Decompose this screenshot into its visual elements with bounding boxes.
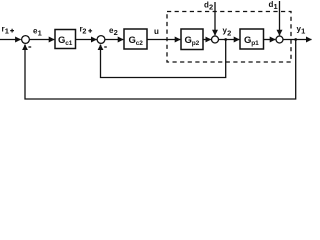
wire inner feedback: y2 down [101, 40, 226, 78]
minus sign at S2 [104, 46, 107, 48]
svg-text:2: 2 [209, 3, 213, 12]
wire Gp1 to S4 [264, 39, 276, 41]
svg-text:1: 1 [5, 27, 9, 36]
wire outer feedback: y1 down [25, 40, 296, 100]
svg-text:p2: p2 [192, 40, 200, 47]
wire r1 input [0, 39, 21, 41]
wire d1 input [279, 1, 281, 35]
summing junction S4 [276, 36, 283, 43]
block Gc2 [124, 29, 147, 49]
svg-text:1: 1 [274, 2, 278, 11]
wire Gc2 to Gp2 [147, 39, 180, 41]
wire S2 to Gc2 [105, 39, 123, 41]
node y1 takeoff dot [294, 38, 297, 41]
svg-text:u: u [154, 27, 159, 36]
dashed plant boundary box [167, 12, 291, 63]
summing junction S3 [212, 36, 219, 43]
wire S4 to output y1 [283, 39, 312, 41]
svg-text:2: 2 [227, 29, 231, 38]
wire S3 to Gp1 [219, 39, 240, 41]
wire inner feedback arrow into S2 [100, 45, 102, 50]
block Gc1 [55, 30, 76, 49]
wire d2 input [214, 2, 216, 35]
svg-text:2: 2 [114, 28, 118, 37]
summing junction S2 [97, 36, 105, 44]
node y2 takeoff dot [224, 38, 227, 41]
svg-text:c2: c2 [136, 40, 144, 47]
svg-text:1: 1 [301, 27, 305, 36]
plus sign at S2 [88, 29, 92, 33]
svg-text:2: 2 [82, 27, 86, 36]
wire outer feedback arrow into S1 [24, 45, 26, 50]
block Gp2 [181, 29, 203, 50]
summing junction S1 [22, 36, 30, 44]
svg-text:p1: p1 [251, 40, 259, 47]
svg-text:c1: c1 [65, 40, 73, 47]
svg-text:1: 1 [38, 29, 42, 38]
wire Gp2 to S3 [203, 39, 211, 41]
plus sign at S1 [10, 29, 14, 33]
wire Gc1 to S2 [76, 39, 97, 41]
block Gp1 [240, 29, 264, 49]
minus sign at S1 [28, 46, 31, 48]
wire S1 to Gc1 [29, 39, 54, 41]
